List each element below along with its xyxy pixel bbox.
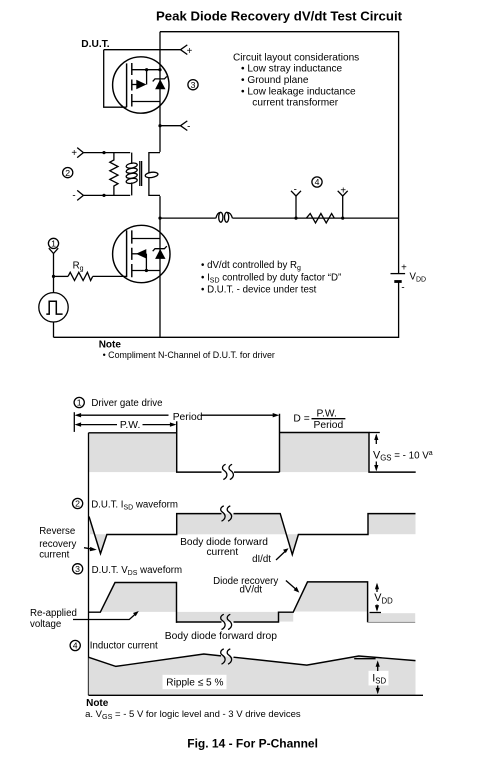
svg-text:+: +	[401, 262, 407, 273]
svg-text:Note: Note	[86, 698, 109, 709]
svg-text:• Low stray inductance: • Low stray inductance	[241, 64, 343, 75]
svg-text:1: 1	[51, 239, 56, 249]
svg-text:• dV/dt controlled by Rg: • dV/dt controlled by Rg	[201, 260, 301, 272]
svg-text:4: 4	[315, 177, 320, 187]
svg-text:a. VGS = - 5 V for logic level: a. VGS = - 5 V for logic level and - 3 V…	[85, 709, 301, 721]
svg-text:current: current	[39, 549, 69, 560]
svg-text:-: -	[294, 184, 297, 195]
svg-text:Peak Diode Recovery dV/dt Test: Peak Diode Recovery dV/dt Test Circuit	[156, 9, 403, 24]
svg-text:Inductor current: Inductor current	[90, 641, 158, 652]
svg-text:Ripple ≤ 5 %: Ripple ≤ 5 %	[166, 677, 223, 688]
svg-text:D.U.T. VDS waveform: D.U.T. VDS waveform	[92, 565, 182, 577]
svg-text:-: -	[401, 282, 404, 293]
svg-text:-: -	[187, 122, 190, 133]
svg-text:+: +	[71, 148, 77, 159]
svg-text:3: 3	[75, 564, 80, 574]
svg-text:current transformer: current transformer	[252, 97, 338, 108]
svg-text:• D.U.T. - device under test: • D.U.T. - device under test	[201, 285, 317, 296]
svg-text:dI/dt: dI/dt	[252, 554, 271, 565]
svg-text:• ISD controlled by duty facto: • ISD controlled by duty factor “D”	[201, 273, 341, 285]
svg-text:D.U.T.: D.U.T.	[81, 39, 109, 50]
svg-text:Circuit layout considerations: Circuit layout considerations	[233, 52, 359, 63]
svg-text:3: 3	[191, 80, 196, 90]
svg-text:Body diode forward drop: Body diode forward drop	[165, 631, 277, 642]
svg-text:• Compliment N-Channel of D.U.: • Compliment N-Channel of D.U.T. for dri…	[103, 350, 275, 360]
svg-text:voltage: voltage	[30, 619, 61, 630]
svg-text:Fig. 14 - For P-Channel: Fig. 14 - For P-Channel	[187, 737, 318, 751]
svg-text:Reverse: Reverse	[39, 526, 75, 537]
svg-text:• Ground plane: • Ground plane	[241, 75, 309, 86]
svg-text:1: 1	[77, 398, 82, 408]
svg-text:• Low leakage inductance: • Low leakage inductance	[241, 87, 356, 98]
svg-text:-: -	[72, 190, 75, 201]
svg-text:2: 2	[65, 168, 70, 178]
svg-text:P.W.: P.W.	[120, 420, 140, 431]
svg-text:2: 2	[75, 499, 80, 509]
svg-text:dV/dt: dV/dt	[240, 584, 263, 595]
svg-text:+: +	[340, 185, 346, 196]
svg-text:Period: Period	[314, 420, 344, 431]
svg-text:D.U.T. ISD waveform: D.U.T. ISD waveform	[91, 500, 178, 512]
svg-text:D =: D =	[293, 413, 309, 424]
svg-text:4: 4	[73, 641, 78, 651]
svg-text:Re-applied: Re-applied	[30, 608, 77, 619]
svg-text:Driver gate drive: Driver gate drive	[91, 398, 162, 409]
svg-text:+: +	[187, 46, 193, 57]
svg-text:recovery: recovery	[39, 539, 76, 550]
svg-text:current: current	[206, 547, 238, 558]
svg-text:P.W.: P.W.	[317, 408, 337, 419]
